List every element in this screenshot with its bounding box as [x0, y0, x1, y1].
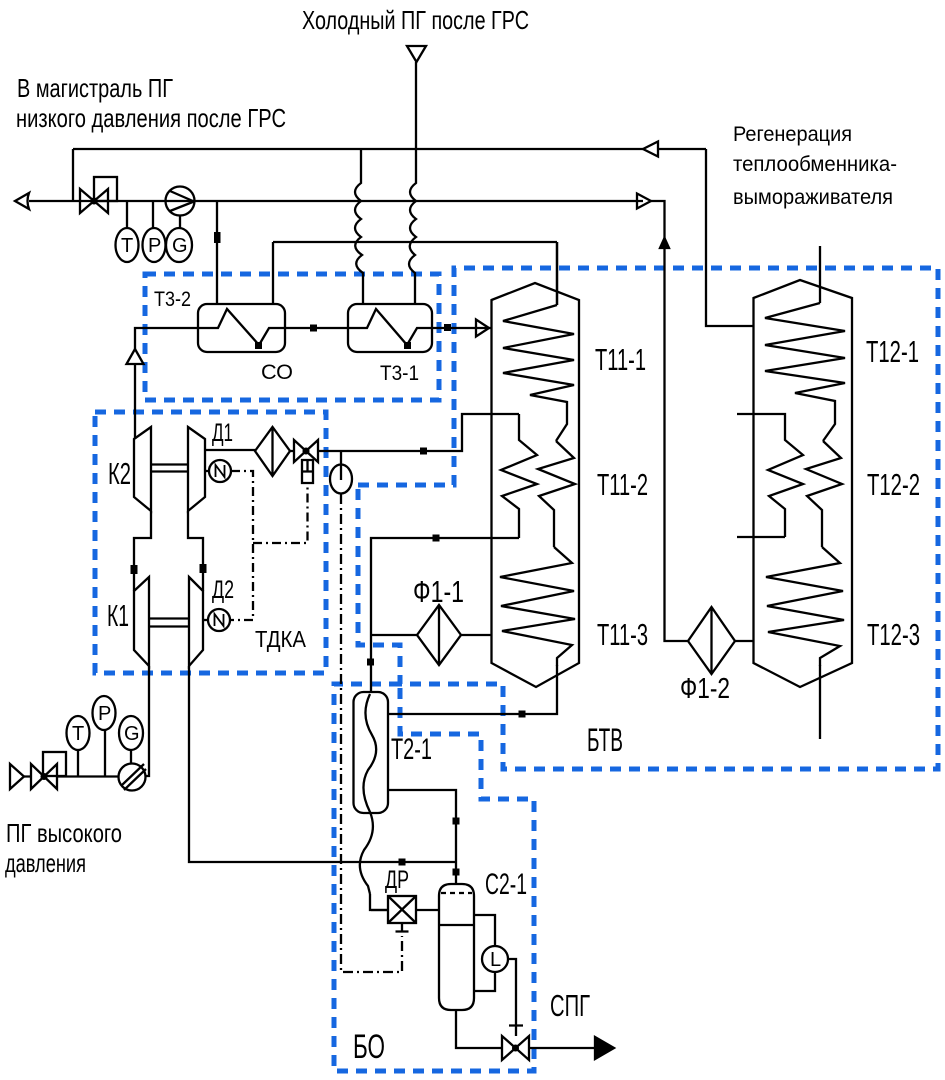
- wire: header to F1-2 downcomer: [651, 201, 688, 641]
- svg-text:Т12-1: Т12-1: [866, 334, 919, 369]
- svg-text:Ф1-1: Ф1-1: [413, 574, 464, 609]
- svg-text:T: T: [121, 235, 133, 257]
- svg-text:Т11-1: Т11-1: [595, 342, 646, 377]
- wire: L to SPG valve actuator: [508, 959, 523, 1036]
- wire: inlet line y=776: [24, 775, 119, 777]
- svg-text:С2-1: С2-1: [485, 868, 527, 901]
- filter F1-2 diamond: [688, 607, 735, 674]
- instrument N2 (K1 speed): [203, 619, 208, 621]
- node: arrow into T11: [476, 320, 489, 337]
- valve V3 actuator box: [43, 752, 66, 776]
- svg-text:G: G: [124, 723, 140, 745]
- svg-text:Т2-1: Т2-1: [391, 733, 432, 766]
- wire: CO top stub to header: [216, 201, 218, 304]
- wire: T2-1 right top y=790 to downcomer: [388, 790, 456, 884]
- wire: low pressure main header y=201: [29, 200, 643, 202]
- filter F1-1 diamond: [417, 605, 461, 665]
- compressor K2 right wheel: [188, 427, 205, 511]
- svg-text:БО: БО: [353, 1028, 385, 1066]
- svg-text:В магистраль ПГ: В магистраль ПГ: [17, 73, 173, 103]
- node: outlet arrow to PG main: [15, 193, 29, 209]
- node: junction mark on CO stub: [214, 232, 221, 243]
- wire: valve outlet to T11-1 stub: [318, 414, 519, 451]
- dashed region BTV: [358, 268, 938, 769]
- wire: K1 left leg to pump: [145, 666, 149, 776]
- svg-text:ПГ высокого: ПГ высокого: [6, 818, 122, 848]
- instrument G2: [130, 750, 132, 763]
- svg-text:Д1: Д1: [212, 419, 233, 447]
- wire: CO-T3-1 link y=328: [285, 327, 348, 329]
- vessel T12 outline: [754, 280, 853, 687]
- wire: regeneration downcomer to T12: [706, 149, 753, 326]
- instrument N1 (K2 speed): [205, 470, 209, 472]
- svg-text:давления: давления: [5, 848, 86, 878]
- valve V2 positioner: [302, 460, 313, 483]
- T11 coil 2 (T11-2) left: [501, 414, 537, 538]
- T12 coil 2 (T12-2) left: [737, 414, 803, 537]
- svg-text:К1: К1: [107, 598, 129, 633]
- valve V3: [31, 764, 57, 789]
- vessel T11 outline: [492, 283, 580, 687]
- valve V1: [80, 189, 108, 213]
- svg-text:P: P: [98, 703, 111, 725]
- wire: T11 top line y=242: [273, 242, 557, 305]
- wire: CO left to K2 riser: [135, 328, 198, 439]
- wire: F1-1 line y=635: [371, 634, 492, 636]
- svg-text:Т3-1: Т3-1: [380, 362, 419, 385]
- compressor K1 right wheel: [189, 577, 203, 666]
- node: small flow arrow on downcomer: [660, 238, 669, 248]
- control line TI to DR valve (dash-dot): [341, 494, 402, 972]
- svg-text:Д2: Д2: [212, 576, 234, 604]
- node: up arrow on K2 riser: [127, 349, 144, 364]
- T12 coil 3 (T12-3): [766, 547, 844, 666]
- heat exchanger T3-2 (CO) body: [198, 304, 285, 352]
- wire: DR inlet/outlet: [371, 909, 439, 911]
- wire: K2 to K1 right leg: [188, 511, 203, 591]
- wire: T11-2 left loop: [371, 538, 519, 691]
- valve SPG: [502, 1036, 529, 1060]
- svg-text:ДР: ДР: [385, 866, 409, 894]
- T12 coil 1 (T12-1): [765, 303, 845, 441]
- instrument G1: [179, 215, 181, 228]
- svg-text:Холодный ПГ после ГРС: Холодный ПГ после ГРС: [302, 5, 529, 35]
- wire: T3-1 to T11 inlet: [432, 327, 492, 329]
- node: arrow to regenerator line (right arrow on header): [637, 194, 651, 209]
- DR valve stem: [396, 923, 409, 932]
- T11 coil 1 (T11-1): [503, 305, 574, 441]
- svg-text:СПГ: СПГ: [550, 988, 590, 1023]
- svg-text:Т11-3: Т11-3: [597, 617, 648, 652]
- wire: K2 to K1 left leg: [134, 511, 151, 591]
- wire: F1-2 to T12: [735, 640, 754, 642]
- svg-text:теплообменника-: теплообменника-: [733, 153, 897, 176]
- valve V2: [294, 440, 318, 462]
- T11 inlet pipe: [556, 242, 558, 305]
- shaft K1: [149, 619, 189, 627]
- dashed box CO/T3-1: [145, 274, 439, 400]
- wire: T2-1 to DR valve: [370, 894, 388, 910]
- svg-text:L: L: [490, 949, 501, 971]
- svg-text:Т12-2: Т12-2: [867, 467, 920, 502]
- wire: left wavy break to T3-1 top-left stub: [355, 150, 363, 304]
- svg-text:ТДКА: ТДКА: [255, 626, 307, 652]
- compressor K1 left wheel: [134, 577, 149, 666]
- wire: corner x=73: [72, 149, 74, 201]
- instrument L: [482, 946, 508, 972]
- wire: regeneration header y=149: [73, 148, 706, 150]
- node: left arrow on regeneration header: [643, 142, 658, 157]
- svg-text:G: G: [172, 235, 188, 257]
- shaft K2: [151, 465, 188, 472]
- wire: K1 outlet long line to C2-1: [189, 666, 456, 862]
- pump/blower B2: [119, 764, 146, 791]
- wire: C2-1 bottom to SPG valve: [456, 1010, 502, 1048]
- node: cold PG inlet triangle: [407, 46, 426, 62]
- control line N1/N2 to valve V2 (dash-dot): [230, 471, 308, 620]
- heat exchanger T3-1 zigzag: [348, 309, 432, 345]
- svg-text:Т11-2: Т11-2: [597, 467, 648, 502]
- T2-1 internal coil wavy: [360, 694, 376, 894]
- T11 coil 2 (T11-2) right: [538, 441, 575, 547]
- heat exchanger T2-1 body: [354, 692, 389, 813]
- throttle valve DR: [388, 896, 416, 923]
- dashed box TDKA: [95, 412, 326, 673]
- wire: cold PG vertical with wavy break to T3-1 top-right stub: [409, 62, 416, 304]
- svg-text:вымораживателя: вымораживателя: [733, 186, 893, 209]
- svg-text:P: P: [148, 235, 161, 257]
- T12 outlet pipe: [819, 665, 821, 739]
- svg-text:БТВ: БТВ: [587, 722, 623, 758]
- T11 coil 3 (T11-3): [500, 547, 575, 666]
- svg-text:низкого давления после ГРС: низкого давления после ГРС: [16, 103, 286, 133]
- T12 inlet pipe: [819, 246, 821, 303]
- T12 coil 2 (T12-2) right: [806, 441, 842, 547]
- svg-text:СО: СО: [261, 361, 293, 384]
- node: SPG outlet arrow: [595, 1037, 614, 1059]
- heat exchanger T3-2 zigzag: [198, 309, 285, 345]
- svg-text:Ф1-2: Ф1-2: [680, 673, 730, 705]
- compressor K2 left wheel: [134, 427, 151, 511]
- wire: K2 outlet to D1 filter valve line y=450: [205, 450, 294, 451]
- instrument T2: [77, 751, 79, 776]
- instrument P1: [152, 201, 154, 228]
- svg-text:Т12-3: Т12-3: [867, 617, 920, 652]
- svg-text:T: T: [72, 723, 84, 745]
- instrument P2: [104, 730, 106, 776]
- wire: SPG outlet: [529, 1047, 595, 1049]
- T12-2 lower stub: [737, 536, 785, 538]
- T11 outlet pipe to T2-1: [388, 665, 557, 714]
- svg-text:Т3-2: Т3-2: [154, 288, 191, 311]
- level gauge loop: [474, 915, 495, 991]
- instrument TI on main line: [340, 452, 342, 465]
- filter F0 diamond: [255, 427, 290, 476]
- heat exchanger T3-1 body: [348, 304, 432, 352]
- dashed region BO: [334, 684, 534, 1071]
- separator C2-1 body: [439, 884, 474, 1010]
- pump/blower B1: [166, 187, 195, 216]
- valve V1 actuator box: [94, 177, 117, 201]
- svg-text:К2: К2: [108, 456, 131, 491]
- svg-text:Регенерация: Регенерация: [733, 123, 852, 146]
- PG high pressure inlet arrow: [10, 764, 24, 789]
- instrument T1: [126, 201, 128, 228]
